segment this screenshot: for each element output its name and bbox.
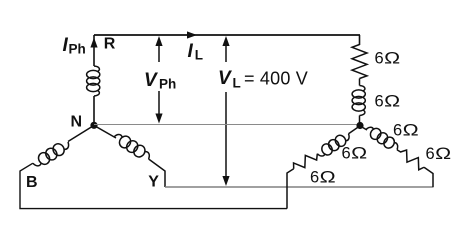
wire left-down branch upper	[349, 127, 360, 134]
wire B branch upper	[68, 126, 93, 142]
svg-text:L: L	[195, 48, 203, 63]
svg-text:V: V	[218, 68, 232, 89]
svg-text:R: R	[104, 36, 116, 53]
svg-text:6: 6	[375, 50, 384, 68]
arrow I_Ph	[90, 38, 97, 48]
svg-text:V: V	[144, 70, 158, 91]
wire neutral N to load star point	[94, 124, 360, 126]
arrow V_L	[222, 36, 229, 186]
svg-text:N: N	[71, 113, 83, 130]
svg-text:Ω: Ω	[320, 169, 336, 187]
svg-text:Ph: Ph	[69, 42, 86, 57]
arrow I_L	[187, 31, 197, 38]
svg-text:6: 6	[342, 145, 351, 163]
svg-text:Ω: Ω	[384, 50, 400, 68]
svg-text:Y: Y	[148, 174, 159, 191]
svg-text:Ω: Ω	[384, 93, 400, 111]
wire right branch corner down	[424, 167, 433, 187]
svg-text:Ω: Ω	[435, 145, 451, 163]
inductor source R	[87, 66, 100, 96]
inductor load right 6ohm	[364, 123, 401, 153]
wire coil to star point	[359, 116, 361, 126]
wire Y branch lower	[149, 159, 165, 187]
wire top line R phase	[94, 34, 360, 36]
svg-text:6: 6	[375, 92, 384, 110]
inductor load top 6ohm	[352, 86, 365, 116]
wire top-right corner down	[359, 35, 361, 45]
inductor source Y	[112, 130, 153, 162]
svg-text:6: 6	[426, 145, 435, 163]
resistor load left 6ohm	[291, 149, 320, 173]
wire between resistor and coil	[359, 79, 361, 86]
svg-text:Ω: Ω	[351, 145, 367, 163]
inductor source B	[31, 138, 72, 170]
wire Y branch upper	[95, 126, 116, 138]
svg-text:6: 6	[393, 122, 402, 140]
svg-text:L: L	[233, 76, 241, 91]
wire B branch lower + bottom run	[20, 163, 287, 208]
wire Y line horizontal	[165, 186, 434, 188]
svg-text:Ph: Ph	[159, 77, 176, 92]
svg-text:B: B	[26, 174, 38, 191]
svg-text:= 400 V: = 400 V	[244, 68, 308, 88]
node load star point	[356, 122, 363, 129]
node N	[90, 122, 97, 129]
inductor load left 6ohm	[315, 130, 352, 160]
wire between coil and resistor right	[397, 150, 401, 153]
svg-text:6: 6	[310, 169, 319, 187]
wire right-down branch upper	[361, 127, 367, 131]
svg-text:Ω: Ω	[403, 122, 419, 140]
wire left branch corner down	[287, 169, 294, 209]
svg-text:I: I	[188, 41, 194, 62]
wire R phase vertical	[93, 35, 95, 66]
arrow V_Ph	[155, 36, 162, 124]
resistor load top 6ohm	[352, 45, 367, 79]
resistor load right 6ohm	[398, 148, 427, 172]
